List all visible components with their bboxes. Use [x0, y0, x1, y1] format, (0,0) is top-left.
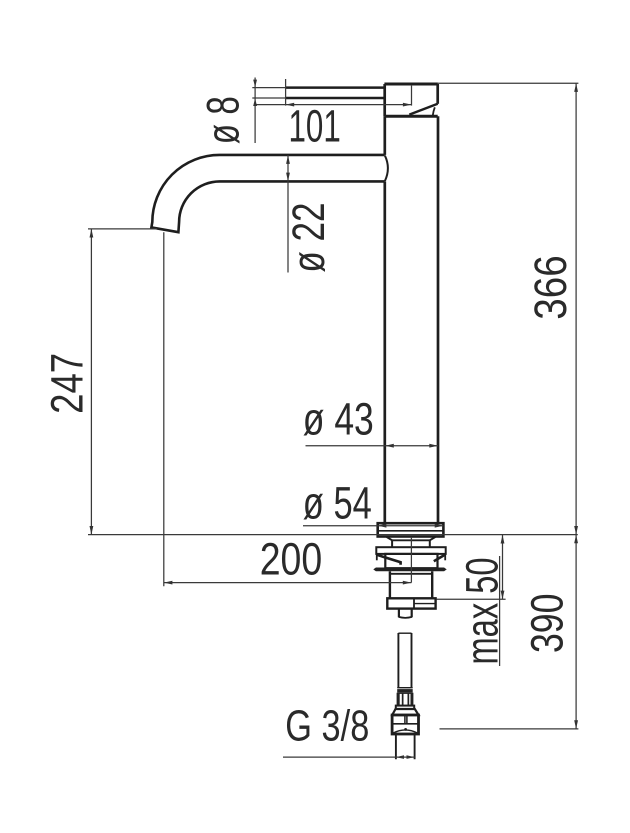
hex coupling divider [413, 598, 415, 608]
dim o43 line [306, 445, 439, 447]
hose nut mid line [392, 723, 418, 725]
arrow 247 top [90, 229, 94, 238]
svg-text:390: 390 [521, 594, 572, 654]
shank right wall [429, 540, 431, 547]
base flange inner line [378, 530, 444, 532]
dim 247 top extension [88, 228, 157, 230]
dim line o8 vertical [254, 78, 256, 144]
o8 extension top [252, 87, 286, 89]
cartridge head top edge [384, 83, 438, 86]
nut cone [392, 709, 418, 715]
head lever travel tick [433, 107, 435, 115]
dim o54 line [303, 525, 443, 527]
arrow o54 right [435, 524, 444, 528]
supply block right wall [431, 571, 433, 598]
arrow o22 bottom [286, 173, 290, 182]
counter line [88, 534, 578, 536]
arrowheads [90, 80, 579, 759]
arrow max50 top [501, 535, 505, 544]
hose nut center dot [404, 728, 407, 731]
arrow g38 left [396, 755, 404, 759]
mounting nut left wing [377, 555, 400, 565]
base flange outline [378, 523, 444, 536]
dim 200 line [164, 582, 412, 584]
dim 200 left extension [163, 232, 165, 586]
dim 200 center extension [410, 537, 412, 583]
lever handle bottom edge [286, 97, 385, 100]
crimp collar top line [397, 687, 413, 689]
dim o22 line [287, 155, 289, 273]
dim 101 line [255, 104, 411, 106]
svg-text:101: 101 [289, 100, 341, 151]
head slanted lever seat [409, 104, 437, 115]
faucet body column left edge upper [383, 116, 386, 155]
cartridge head left edge [383, 84, 386, 116]
arrow max50 bottom [501, 591, 505, 600]
mounting nut right wing [434, 555, 445, 561]
arrow 390 top [574, 535, 578, 544]
arrow g38 right [407, 755, 415, 759]
mounting nut body [385, 554, 437, 568]
crimp sleeve ribs [397, 693, 414, 706]
hex coupling facet line [414, 603, 436, 605]
svg-text:200: 200 [260, 533, 323, 584]
dim max50 line [502, 535, 504, 600]
DIMENSIONS [88, 78, 578, 758]
shank right slant [430, 537, 436, 540]
outlet stub bottom [399, 616, 412, 619]
faucet body column right edge [437, 116, 440, 523]
arrow o8 bottom [253, 98, 257, 106]
390 bottom extension [440, 728, 579, 730]
arrow 366 bottom [574, 526, 578, 535]
supply block left wall [389, 571, 391, 598]
arrow o43 right [429, 444, 438, 448]
svg-text:ø 8: ø 8 [198, 96, 249, 144]
arrow o22 top [286, 155, 290, 164]
hose nut body [392, 715, 418, 734]
sleeve lower ring [396, 706, 414, 709]
dim 247 line [90, 229, 92, 535]
o8 extension bottom [252, 97, 286, 99]
arrow 247 bottom [90, 526, 94, 535]
mounting nut left lug [376, 554, 378, 560]
outlet stub [399, 609, 412, 618]
hex coupling outline [387, 598, 435, 608]
dim 101 right extension [411, 86, 413, 106]
faucet body column left edge lower [383, 181, 386, 523]
cartridge head right edge [436, 84, 439, 104]
shank left wall [391, 540, 393, 547]
hose nut bottom face arc [393, 730, 417, 733]
svg-text:G 3/8: G 3/8 [285, 702, 369, 751]
spacer washer [376, 547, 445, 554]
arrow 366 top [574, 83, 578, 92]
dim g38 line [283, 756, 415, 758]
arrow o43 left [385, 444, 394, 448]
svg-text:ø 22: ø 22 [283, 203, 334, 273]
gasket band [373, 568, 446, 572]
flexible hose walls [398, 633, 411, 688]
shank left slant [387, 537, 393, 540]
dim 101 left extension [285, 79, 287, 106]
max50 bottom extension [437, 598, 506, 600]
svg-text:max 50: max 50 [456, 558, 507, 665]
lever handle top edge [286, 86, 385, 89]
thread tails [396, 734, 415, 759]
arrow 200 right [403, 581, 412, 585]
supply block top line [390, 573, 432, 575]
spout tube outline [151, 155, 384, 232]
max50 underline [499, 556, 501, 666]
svg-text:366: 366 [525, 255, 576, 320]
arrow 101 left [286, 103, 295, 107]
dim 366-390 vertical line [575, 83, 577, 729]
arrow 101 right [403, 103, 412, 107]
svg-text:ø 43: ø 43 [303, 393, 374, 444]
flexible hose top cap [398, 632, 411, 634]
366 top extension [438, 82, 578, 84]
mounting nut right lug [444, 554, 446, 560]
arrow o8 top [253, 80, 257, 88]
cartridge head bottom edge [385, 115, 438, 118]
svg-text:ø 54: ø 54 [303, 478, 372, 529]
hose nut facets [405, 715, 407, 724]
arrow o54 left [378, 524, 387, 528]
crimp collar [397, 689, 413, 693]
arrow 200 left [164, 581, 173, 585]
spout socket bulge on column [385, 156, 388, 181]
arrow 390 bottom [574, 720, 578, 729]
svg-text:247: 247 [41, 353, 92, 414]
crimp sleeve slots [400, 694, 411, 705]
shank shoulder line [392, 539, 430, 541]
